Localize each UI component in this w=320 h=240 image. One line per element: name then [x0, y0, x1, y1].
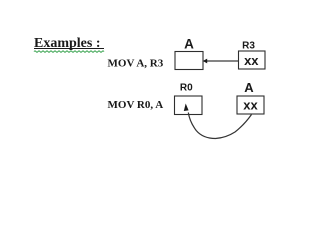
svg-text:xx: xx	[244, 53, 259, 68]
green wavy grammar underline	[34, 51, 104, 52]
wire: curved arrow from A down around to R0	[188, 113, 251, 139]
instruction text "MOV A, R3"	[108, 57, 164, 69]
svg-text:A: A	[184, 37, 194, 52]
heading underline	[34, 48, 104, 50]
register box R0 (empty)	[175, 96, 203, 115]
wire: arrow from R3 to A	[203, 59, 239, 64]
register box R3	[239, 51, 266, 69]
svg-text:A: A	[244, 80, 254, 95]
label A (accumulator, bottom diagram)	[244, 80, 254, 95]
svg-text:MOV R0, A: MOV R0, A	[108, 99, 164, 111]
value xx in A	[243, 97, 258, 112]
register box A (top, empty)	[175, 52, 203, 70]
svg-text:xx: xx	[243, 97, 258, 112]
label R3	[242, 41, 255, 52]
register box A (bottom)	[237, 96, 264, 114]
instruction text "MOV R0, A"	[108, 99, 164, 111]
svg-text:R3: R3	[242, 41, 255, 52]
value xx in R3	[244, 53, 259, 68]
arrowhead into R0	[184, 104, 189, 112]
svg-text:R0: R0	[180, 83, 193, 94]
heading "Examples :"	[34, 36, 101, 51]
svg-text:MOV A, R3: MOV A, R3	[108, 57, 164, 69]
label R0	[180, 83, 193, 94]
label A (accumulator, top diagram)	[184, 37, 194, 52]
